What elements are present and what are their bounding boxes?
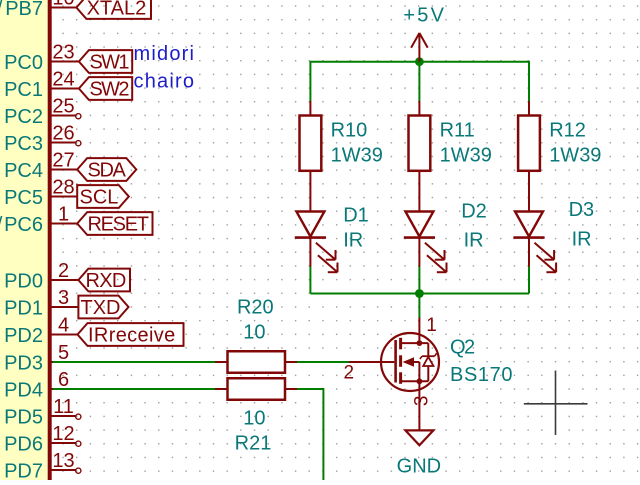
svg-text:R10: R10 xyxy=(331,120,368,142)
svg-text:3: 3 xyxy=(412,396,433,407)
svg-text:D2: D2 xyxy=(461,201,487,223)
svg-text:PC2: PC2 xyxy=(4,106,43,128)
global label SDA xyxy=(77,158,136,181)
svg-text:PD1: PD1 xyxy=(4,297,43,319)
transistor Q2 BS170 xyxy=(349,318,439,431)
svg-text:13: 13 xyxy=(52,450,74,472)
global label RESET xyxy=(77,212,152,235)
svg-text:3: 3 xyxy=(58,287,69,309)
svg-text:SW1: SW1 xyxy=(90,52,130,74)
global label XTAL2 xyxy=(76,0,151,19)
svg-text:PC5: PC5 xyxy=(4,187,43,209)
svg-text:PD7: PD7 xyxy=(4,460,43,480)
svg-text:midori: midori xyxy=(134,43,196,65)
svg-text:PD3: PD3 xyxy=(4,352,43,374)
svg-text:Q2: Q2 xyxy=(450,337,475,359)
global label IRreceive xyxy=(78,323,184,346)
resistor R11 xyxy=(418,101,420,116)
wire R20 to Q2 gate xyxy=(297,361,349,363)
svg-text:PC4: PC4 xyxy=(4,160,43,182)
cursor crosshair xyxy=(524,371,588,436)
junction bottom rail xyxy=(415,289,424,298)
svg-text:PD5: PD5 xyxy=(4,406,43,428)
svg-text:IR: IR xyxy=(464,230,484,252)
svg-text:SDA: SDA xyxy=(88,160,127,182)
wire D3 to bottom rail xyxy=(528,267,530,294)
svg-text:PB7: PB7 xyxy=(5,0,43,20)
ground xyxy=(405,430,433,445)
svg-text:IR: IR xyxy=(343,230,363,252)
svg-text:5: 5 xyxy=(58,342,69,364)
svg-text:1: 1 xyxy=(426,315,437,336)
wire drain to rail xyxy=(418,294,420,318)
wire PD3 to R20 xyxy=(53,361,215,363)
svg-text:PD2: PD2 xyxy=(4,325,43,347)
svg-text:IRreceive: IRreceive xyxy=(88,325,176,347)
svg-text:PD0: PD0 xyxy=(4,270,43,292)
svg-text:R20: R20 xyxy=(237,297,274,319)
svg-text:11: 11 xyxy=(53,396,74,418)
diode D1 (IR LED) xyxy=(309,171,311,212)
wire V+ to R11 xyxy=(418,62,420,101)
resistor R10 xyxy=(309,101,311,116)
svg-text:1W39: 1W39 xyxy=(549,145,601,167)
svg-text:4: 4 xyxy=(58,315,69,337)
global label RXD xyxy=(78,269,130,292)
wire +5V rail xyxy=(310,62,529,101)
resistor R20 xyxy=(215,361,228,363)
resistor R21 xyxy=(215,388,228,390)
svg-text:28: 28 xyxy=(52,177,74,199)
svg-text:+5V: +5V xyxy=(403,5,446,27)
wire R21 down xyxy=(297,389,323,480)
svg-text:PC1: PC1 xyxy=(4,79,43,101)
svg-text:chairo: chairo xyxy=(134,71,196,93)
svg-text:BS170: BS170 xyxy=(450,364,513,386)
svg-text:PD4: PD4 xyxy=(4,379,43,401)
svg-text:25: 25 xyxy=(52,96,74,118)
svg-text:PC6: PC6 xyxy=(4,214,43,236)
wire PD4 to R21 xyxy=(53,388,215,390)
svg-text:SW2: SW2 xyxy=(90,79,130,101)
diode D3 (IR LED) xyxy=(528,171,530,212)
global label TXD xyxy=(78,296,128,319)
svg-text:R21: R21 xyxy=(235,433,272,455)
svg-text:IR: IR xyxy=(572,229,592,251)
svg-text:1W39: 1W39 xyxy=(331,145,383,167)
svg-text:SCL: SCL xyxy=(80,187,119,209)
svg-text:PD6: PD6 xyxy=(4,433,43,455)
power +5V symbol xyxy=(411,33,428,62)
global label SW1 xyxy=(79,50,132,73)
svg-text:PC3: PC3 xyxy=(4,133,43,155)
svg-text:RXD: RXD xyxy=(86,270,126,292)
wire D1 to bottom rail xyxy=(309,267,311,294)
wire D2 to bottom rail xyxy=(418,267,420,294)
svg-text:23: 23 xyxy=(52,42,74,64)
svg-text:6: 6 xyxy=(58,369,69,391)
svg-text:1: 1 xyxy=(58,204,69,226)
svg-text:D3: D3 xyxy=(569,199,595,221)
svg-text:R11: R11 xyxy=(440,120,475,142)
svg-text:R12: R12 xyxy=(549,120,586,142)
svg-text:12: 12 xyxy=(52,423,74,445)
svg-text:GND: GND xyxy=(397,456,441,478)
wire bottom rail xyxy=(310,293,529,295)
svg-text:2: 2 xyxy=(58,260,69,282)
svg-text:26: 26 xyxy=(52,123,74,145)
svg-text:1W39: 1W39 xyxy=(440,145,492,167)
svg-text:24: 24 xyxy=(52,69,74,91)
svg-text:D1: D1 xyxy=(343,205,369,227)
svg-text:PC0: PC0 xyxy=(4,52,43,74)
svg-text:10: 10 xyxy=(243,322,265,344)
diode D2 (IR LED) xyxy=(418,171,420,212)
resistor R12 xyxy=(528,101,530,116)
global label SCL xyxy=(77,185,129,208)
svg-text:RESET: RESET xyxy=(88,214,149,236)
svg-text:10: 10 xyxy=(243,408,265,430)
svg-text:TXD: TXD xyxy=(81,297,121,319)
IC U1 body (microcontroller, partial) xyxy=(0,0,48,480)
junction top rail xyxy=(415,57,424,66)
svg-text:2: 2 xyxy=(344,363,355,384)
svg-text:XTAL2: XTAL2 xyxy=(87,0,147,20)
global label SW2 xyxy=(79,77,132,100)
svg-text:27: 27 xyxy=(52,150,74,172)
